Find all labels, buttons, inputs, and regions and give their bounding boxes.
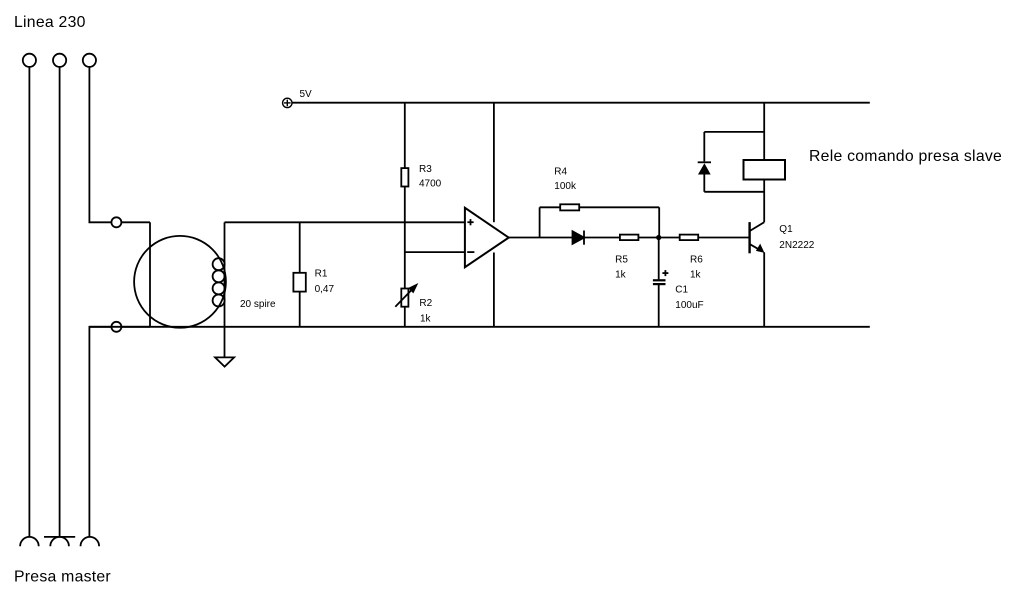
wire emitter vertical xyxy=(763,252,765,326)
terminal circle line3 top xyxy=(83,54,96,67)
resistor R3 xyxy=(401,168,408,186)
wire flyback left lower xyxy=(703,175,705,192)
earth bar line2 xyxy=(44,536,75,538)
wire secondary vertical xyxy=(224,222,226,326)
wire feedback left vertical xyxy=(539,207,541,237)
wire feedback top left xyxy=(540,206,561,208)
wire R1 bottom xyxy=(299,292,301,327)
svg-text:4700: 4700 xyxy=(419,179,442,190)
wire diode to R5 xyxy=(584,237,620,239)
svg-text:Presa master: Presa master xyxy=(14,569,111,586)
diode D1 xyxy=(573,231,585,245)
svg-text:0,47: 0,47 xyxy=(315,284,335,295)
svg-text:2N2222: 2N2222 xyxy=(779,240,814,251)
svg-text:100k: 100k xyxy=(554,181,577,192)
socket arc line2 bottom xyxy=(50,537,69,546)
svg-text:R1: R1 xyxy=(315,269,328,280)
svg-text:100uF: 100uF xyxy=(675,300,703,311)
svg-text:R6: R6 xyxy=(690,254,703,265)
transformer T1 core circle xyxy=(134,236,226,328)
terminal circle line2 top xyxy=(53,54,66,67)
wire line2 vertical xyxy=(59,67,61,537)
wire flyback bottom xyxy=(704,191,764,193)
svg-text:Linea 230: Linea 230 xyxy=(14,14,86,31)
op-amp plus sign xyxy=(467,219,473,225)
svg-text:Q1: Q1 xyxy=(779,224,793,235)
wire R1 top xyxy=(299,222,301,272)
wire op-amp minus input xyxy=(405,251,465,253)
resistor R6 xyxy=(680,235,699,241)
wire bottom rail xyxy=(89,326,869,328)
op-amp U1 xyxy=(465,208,509,267)
wire top supply rail xyxy=(292,102,870,104)
socket arc line3 bottom xyxy=(81,537,100,546)
svg-text:1k: 1k xyxy=(420,313,432,324)
resistor R4 xyxy=(560,204,579,210)
svg-text:1k: 1k xyxy=(690,270,702,281)
resistor R1 xyxy=(293,273,305,292)
transformer secondary coil loops xyxy=(213,258,225,306)
svg-text:1k: 1k xyxy=(615,270,627,281)
resistor R2 (variable) xyxy=(401,289,408,307)
wire op-amp supply lower xyxy=(493,253,495,327)
wire feedback top right xyxy=(579,206,659,208)
wire relay supply vertical xyxy=(763,103,765,160)
wire line1 vertical xyxy=(28,67,30,537)
svg-text:5V: 5V xyxy=(300,89,313,100)
wire flyback left upper xyxy=(703,132,705,162)
wire op-amp output xyxy=(509,237,573,239)
wire C1 top xyxy=(658,238,660,280)
wire feedback right vertical xyxy=(658,207,660,237)
wire line3 top vertical xyxy=(89,67,150,222)
ground xyxy=(215,357,234,366)
relay K1 coil xyxy=(744,160,786,180)
wire primary vertical xyxy=(149,222,151,326)
wire op-amp supply upper xyxy=(493,103,495,223)
wire flyback top xyxy=(704,131,764,133)
svg-text:Rele comando presa slave: Rele comando presa slave xyxy=(809,148,1002,165)
wire R3-R2 middle xyxy=(404,187,406,289)
power 5V symbol xyxy=(283,98,292,107)
op-amp minus sign xyxy=(467,251,474,253)
wire C1 bottom xyxy=(658,285,660,327)
socket arc line1 bottom xyxy=(20,537,39,546)
wire R5 to R6 xyxy=(638,237,679,239)
terminal circle primary top xyxy=(111,217,121,227)
terminal circle primary bottom xyxy=(111,322,121,332)
svg-text:R4: R4 xyxy=(554,166,567,177)
svg-text:R2: R2 xyxy=(419,298,432,309)
wire top measurement rail xyxy=(225,221,465,223)
transistor Q1 xyxy=(750,222,765,253)
junction node xyxy=(656,235,661,240)
resistor R5 xyxy=(620,235,639,241)
terminal circle line1 top xyxy=(23,54,36,67)
flyback diode D2 xyxy=(698,162,711,174)
R2 wiper arrow xyxy=(395,285,416,307)
wire collector vertical xyxy=(763,180,765,223)
wire ground stub xyxy=(224,327,226,358)
wire line3 bottom vertical xyxy=(89,327,150,537)
wire R2 bottom xyxy=(404,307,406,327)
svg-text:C1: C1 xyxy=(675,285,688,296)
svg-text:R3: R3 xyxy=(419,164,432,175)
svg-text:R5: R5 xyxy=(615,254,628,265)
capacitor C1 xyxy=(653,270,669,285)
svg-text:20 spire: 20 spire xyxy=(240,299,276,310)
wire R6 to base xyxy=(698,237,749,239)
wire R3 top xyxy=(404,103,406,168)
